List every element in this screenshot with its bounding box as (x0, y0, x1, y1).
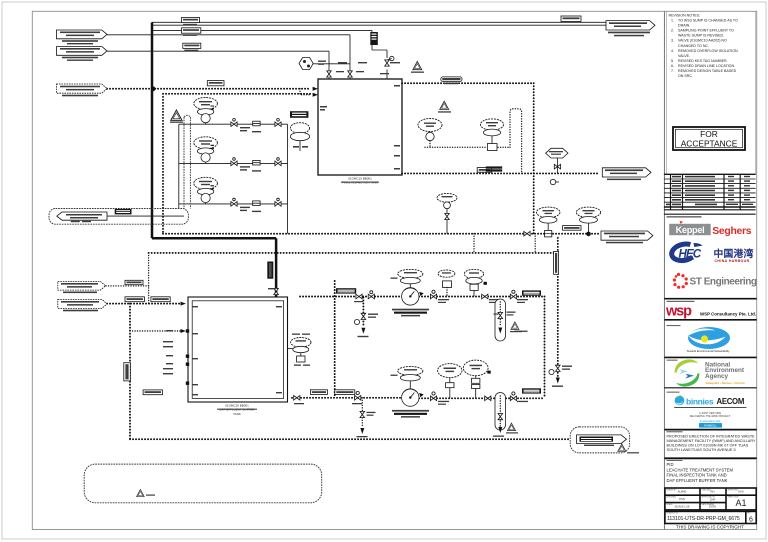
svg-text:SCALE: SCALE (666, 503, 673, 506)
svg-text:Agency: Agency (705, 373, 729, 380)
svg-text:APPROVED BY: APPROVED BY (702, 496, 716, 499)
svg-text:ON SRC.: ON SRC. (678, 74, 693, 78)
svg-text:SCALE 1:25: SCALE 1:25 (675, 504, 690, 508)
svg-text:WASTE SUMP IS REVISED.: WASTE SUMP IS REVISED. (678, 34, 724, 38)
svg-text:wsp: wsp (665, 304, 692, 320)
svg-text:REVISED KKS TAG NUMBER.: REVISED KKS TAG NUMBER. (678, 59, 728, 63)
svg-text:CHECKED: CHECKED (702, 489, 712, 491)
svg-text:ST Engineering: ST Engineering (690, 276, 757, 287)
svg-text:VALVE.: VALVE. (678, 54, 690, 58)
svg-text:AU/MD: AU/MD (678, 490, 687, 494)
svg-text:Seghers: Seghers (712, 226, 751, 237)
svg-text:113101-UTS-DR-PRP-GM_6675: 113101-UTS-DR-PRP-GM_6675 (667, 516, 740, 522)
svg-text:DAF EFFLUENT BUFFER TANK: DAF EFFLUENT BUFFER TANK (667, 478, 728, 483)
svg-text:TO WS3 SUMP IS CHANGED AS TO: TO WS3 SUMP IS CHANGED AS TO (678, 19, 738, 23)
svg-text:REMOVED OVERFLOW ISOLATION: REMOVED OVERFLOW ISOLATION (678, 49, 738, 53)
svg-text:CHINA HARBOUR: CHINA HARBOUR (715, 259, 750, 263)
svg-text:VALVE (01GMC10 AA202) NO: VALVE (01GMC10 AA202) NO (678, 39, 727, 43)
svg-text:KKS: KKS (738, 490, 744, 494)
svg-text:DRAWN BY: DRAWN BY (666, 488, 677, 491)
svg-text:3.: 3. (671, 39, 674, 43)
svg-text:HEC: HEC (679, 248, 702, 261)
svg-text:Safeguard • Nurture • Cherish: Safeguard • Nurture • Cherish (706, 381, 746, 385)
svg-text:PROPOSED ERECTION OF INTEGRATE: PROPOSED ERECTION OF INTEGRATED WASTE (667, 435, 756, 439)
svg-text:7.: 7. (671, 69, 674, 73)
svg-text:MANAGEMENT FACILITY (IWMF) AND: MANAGEMENT FACILITY (IWMF) AND ANCILLARY (667, 439, 756, 443)
svg-text:4.: 4. (671, 49, 674, 53)
svg-text:RH: RH (711, 490, 715, 494)
svg-text:CHANGED TO NC.: CHANGED TO NC. (678, 44, 709, 48)
svg-text:RAMBOLL: RAMBOLL (704, 423, 717, 427)
svg-text:REMOVED DESIGN TABLE BASED: REMOVED DESIGN TABLE BASED (678, 69, 737, 73)
svg-text:1.: 1. (671, 19, 674, 23)
svg-text:REVISED DRAIN LINE LOCATION.: REVISED DRAIN LINE LOCATION. (678, 64, 735, 68)
svg-text:Keppel: Keppel (676, 225, 705, 235)
svg-text:DRAIN.: DRAIN. (678, 24, 690, 28)
svg-text:6.: 6. (671, 64, 674, 68)
svg-text:BUILDINGS ON LOT 01039N MK 07: BUILDINGS ON LOT 01039N MK 07 OFF TUAS (667, 443, 749, 447)
svg-text:THIS DRAWING IS COPYRIGHT: THIS DRAWING IS COPYRIGHT (676, 524, 744, 529)
svg-text:AECOM: AECOM (717, 397, 745, 406)
svg-text:SAMPLING POINT EFFLUENT TO: SAMPLING POINT EFFLUENT TO (678, 29, 734, 33)
svg-text:ACCEPTANCE: ACCEPTANCE (681, 139, 738, 149)
svg-text:TANK: TANK (233, 412, 241, 416)
svg-text:2.: 2. (671, 29, 674, 33)
svg-text:PID: PID (667, 462, 674, 467)
svg-text:DESIGNED: DESIGNED (666, 497, 677, 499)
svg-text:binnies: binnies (686, 397, 714, 407)
svg-text:DRAWING No.: DRAWING No. (666, 512, 679, 515)
svg-text:DATE DRAWN: DATE DRAWN (702, 503, 715, 506)
svg-text:6: 6 (749, 517, 753, 524)
svg-text:SOUTH LANE/TUAS SOUTH AVENUE 5: SOUTH LANE/TUAS SOUTH AVENUE 5 (667, 448, 736, 452)
svg-text:DELIVERING THE IWMF PROJECT: DELIVERING THE IWMF PROJECT (690, 415, 731, 418)
svg-text:5.: 5. (671, 59, 674, 63)
svg-text:A1: A1 (735, 498, 746, 508)
svg-text:Towards Environmental Sustaina: Towards Environmental Sustainability (687, 349, 731, 353)
svg-text:PSN: PSN (679, 497, 685, 501)
svg-text:REVISION NOTES:: REVISION NOTES: (669, 14, 701, 18)
svg-text:APPROVED: APPROVED (728, 488, 739, 491)
svg-text:in association with: in association with (700, 420, 721, 423)
svg-text:WSP Consultancy Pte. Ltd.: WSP Consultancy Pte. Ltd. (700, 312, 756, 317)
